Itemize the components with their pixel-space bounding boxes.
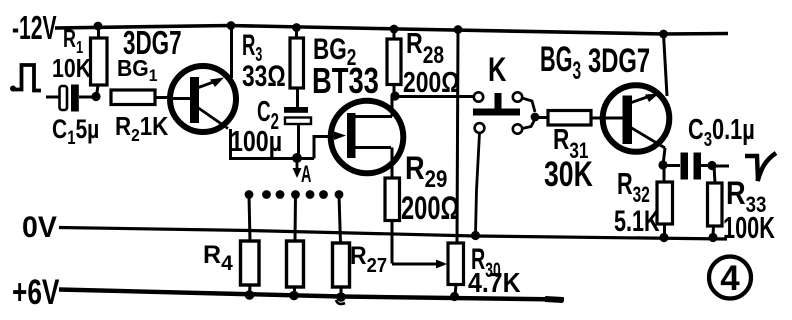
transistor BG1 (168, 66, 236, 132)
label K switch (488, 52, 507, 89)
output sawtooth waveform symbol (745, 153, 776, 181)
svg-text:100µ: 100µ (230, 124, 282, 157)
node junction C3/R33 (707, 161, 729, 170)
svg-text:+6V: +6V (12, 272, 60, 312)
svg-text:100K: 100K (723, 210, 775, 245)
label 3DG7 BG3 type (588, 42, 650, 80)
label +6V rail (12, 272, 60, 312)
node A junction dot (292, 153, 302, 163)
label R29 (405, 151, 447, 192)
label R27 (350, 242, 387, 277)
resistor R31 (548, 111, 604, 126)
resistor R32 (657, 168, 673, 242)
label R33 (726, 176, 766, 217)
resistor R2 (111, 90, 171, 105)
resistor R4 (241, 195, 260, 300)
value C3 0.1u (688, 114, 755, 150)
svg-text:C15µ: C15µ (52, 115, 99, 149)
svg-text:BT33: BT33 (312, 60, 379, 101)
value R2 1K (115, 112, 169, 145)
wire BG3 collector to rail (659, 30, 668, 96)
node junction emitter/C3/R32 (658, 160, 667, 169)
label 3DG7 BG1 type (123, 24, 182, 61)
svg-text:K: K (488, 52, 507, 89)
wire BG1 emitter down and across (229, 129, 314, 159)
label -12V supply (12, 9, 57, 46)
wire BG2 B2 to R28 junction (391, 95, 394, 117)
capacitor C2 (284, 107, 311, 158)
input pulse waveform symbol (10, 65, 41, 92)
svg-text:R29: R29 (405, 151, 447, 192)
wire BG2 B1 down to R29 (391, 148, 394, 179)
resistor R33 (708, 166, 723, 242)
label R30 (471, 243, 501, 282)
value 200ohm R29 (401, 191, 459, 226)
potentiometer R30 (448, 243, 464, 301)
svg-text:C30.1µ: C30.1µ (688, 114, 755, 150)
label R4 (203, 241, 233, 275)
wire switch lower-left to 0V rail (471, 133, 480, 240)
svg-text:R28: R28 (406, 26, 444, 68)
svg-text:BG3: BG3 (540, 41, 581, 85)
svg-text:10K: 10K (52, 54, 91, 84)
node junction R28/B2/switch (390, 91, 399, 100)
wire BG1 collector to rail (227, 21, 236, 78)
wire to BG2 emitter (314, 132, 346, 159)
capacitor C1 (46, 85, 92, 112)
resistor R29 (385, 178, 447, 269)
svg-text:R21K: R21K (115, 112, 169, 145)
label node A (301, 161, 311, 188)
value 200ohm R28 (403, 65, 460, 98)
svg-text:R32: R32 (617, 166, 650, 208)
svg-text:R27: R27 (350, 242, 387, 277)
label 0V rail (22, 211, 57, 244)
label R1 (63, 24, 83, 58)
svg-text:4.7K: 4.7K (468, 267, 521, 299)
label R3 (242, 29, 262, 66)
svg-text:A: A (301, 161, 311, 188)
node A tap dots row (245, 190, 344, 199)
transistor BG3 (603, 85, 670, 152)
svg-text:R4: R4 (203, 241, 233, 275)
resistor middle unlabeled (287, 195, 304, 300)
switch K (473, 92, 522, 133)
node junction C1/R1/R2 (91, 92, 100, 101)
label R28 (406, 26, 444, 68)
label BG2 (313, 32, 356, 71)
value 10K (52, 54, 91, 84)
value 100K (723, 210, 775, 245)
label BG1 (117, 55, 157, 85)
wire rail to R30 vertical (454, 25, 463, 243)
svg-text:30K: 30K (544, 154, 593, 193)
resistor R3 (290, 23, 304, 107)
svg-text:3DG7: 3DG7 (588, 42, 650, 80)
svg-text:200Ω: 200Ω (401, 191, 459, 226)
resistor R27 (333, 195, 350, 304)
svg-text:0V: 0V (22, 211, 57, 244)
wire +6V rail (59, 290, 564, 301)
node A arrow (293, 158, 302, 178)
label BG3 (540, 41, 581, 85)
capacitor C3 (663, 153, 708, 180)
label R32 (617, 166, 650, 208)
transistor BG2 (UJT BT33) (331, 101, 404, 174)
wire switch right terminals to R31 (522, 98, 548, 129)
svg-text:200Ω: 200Ω (403, 65, 460, 98)
figure number 4 (709, 257, 751, 299)
resistor R28 (387, 25, 401, 96)
svg-text:5.1K: 5.1K (614, 203, 660, 237)
value 30K (544, 154, 593, 193)
label C2 (257, 96, 279, 135)
value 4.7K (468, 267, 521, 299)
resistor R1 (91, 22, 108, 96)
value 100u (230, 124, 282, 157)
wire 0V rail (59, 228, 727, 240)
value 33ohm (242, 59, 286, 93)
svg-text:-12V: -12V (12, 9, 57, 46)
svg-text:33Ω: 33Ω (242, 59, 286, 93)
wire top -12V rail (55, 26, 728, 35)
value 5.1K (614, 203, 660, 237)
wire junction to switch K (395, 95, 474, 98)
svg-text:4: 4 (720, 259, 740, 298)
label R31 (553, 122, 588, 163)
wire BG3 emitter down (663, 148, 665, 165)
value C1 5u (52, 115, 99, 149)
label BT33 (312, 60, 379, 101)
